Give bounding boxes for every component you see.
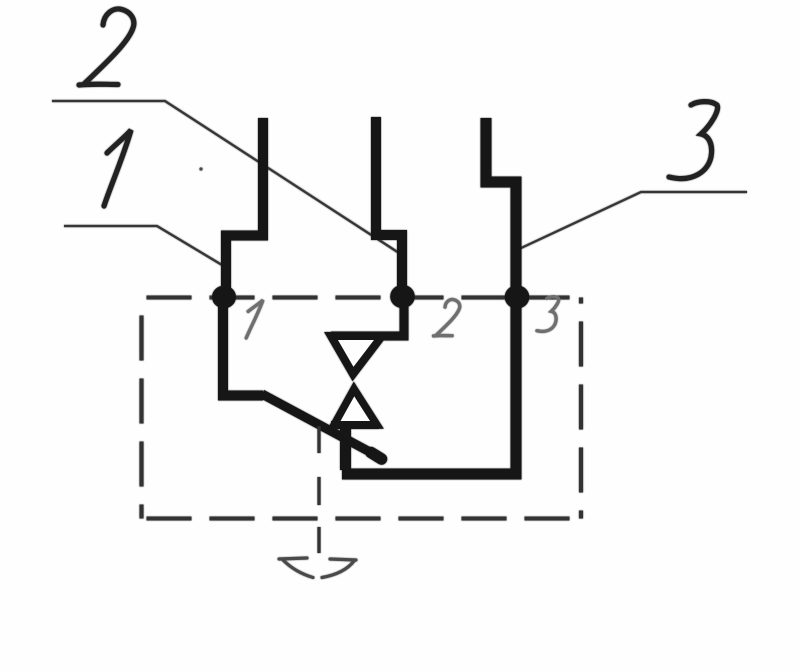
wire pin1 to switch arm pivot xyxy=(223,297,263,396)
leader label digit 2 xyxy=(79,9,134,85)
terminal 1 lead wire xyxy=(226,118,263,297)
actuation centerline dash b xyxy=(317,477,320,505)
dashed enclosure box left edge xyxy=(139,298,143,519)
junction dot pin 1 xyxy=(212,286,236,309)
fixed contact triangle (down) xyxy=(331,336,382,374)
leader label digit 3 xyxy=(669,102,718,179)
terminal 3 lead wire + bottom wire xyxy=(342,118,516,474)
pin number 2 xyxy=(434,299,460,335)
switch arm (movable contact) xyxy=(262,394,383,459)
actuation arrow head xyxy=(279,558,356,578)
dashed enclosure box right edge xyxy=(579,298,583,519)
wire pin2 to fixed contact xyxy=(331,292,404,336)
junction dot pin 3 xyxy=(505,285,530,308)
actuation centerline dash a xyxy=(317,426,320,453)
stem from triangle to bottom wire xyxy=(340,425,351,470)
leader line to pin 1 xyxy=(64,226,222,265)
ink speck xyxy=(199,167,202,170)
leader line to pin 2 xyxy=(52,101,399,253)
dashed enclosure box top edge xyxy=(142,295,582,299)
actuation centerline dash c xyxy=(317,527,320,553)
pin number 1 xyxy=(246,300,263,338)
switch arm tip blob xyxy=(371,453,382,460)
leader line to pin 3 xyxy=(519,192,747,249)
leader label digit 1 xyxy=(104,130,131,206)
junction dot pin 2 xyxy=(390,285,415,308)
triangle base bar xyxy=(331,421,379,429)
terminal 2 lead wire xyxy=(376,117,402,297)
moving contact triangle (up) xyxy=(334,389,377,425)
pin number 3 xyxy=(537,297,559,332)
dashed enclosure box bottom edge xyxy=(142,516,582,520)
